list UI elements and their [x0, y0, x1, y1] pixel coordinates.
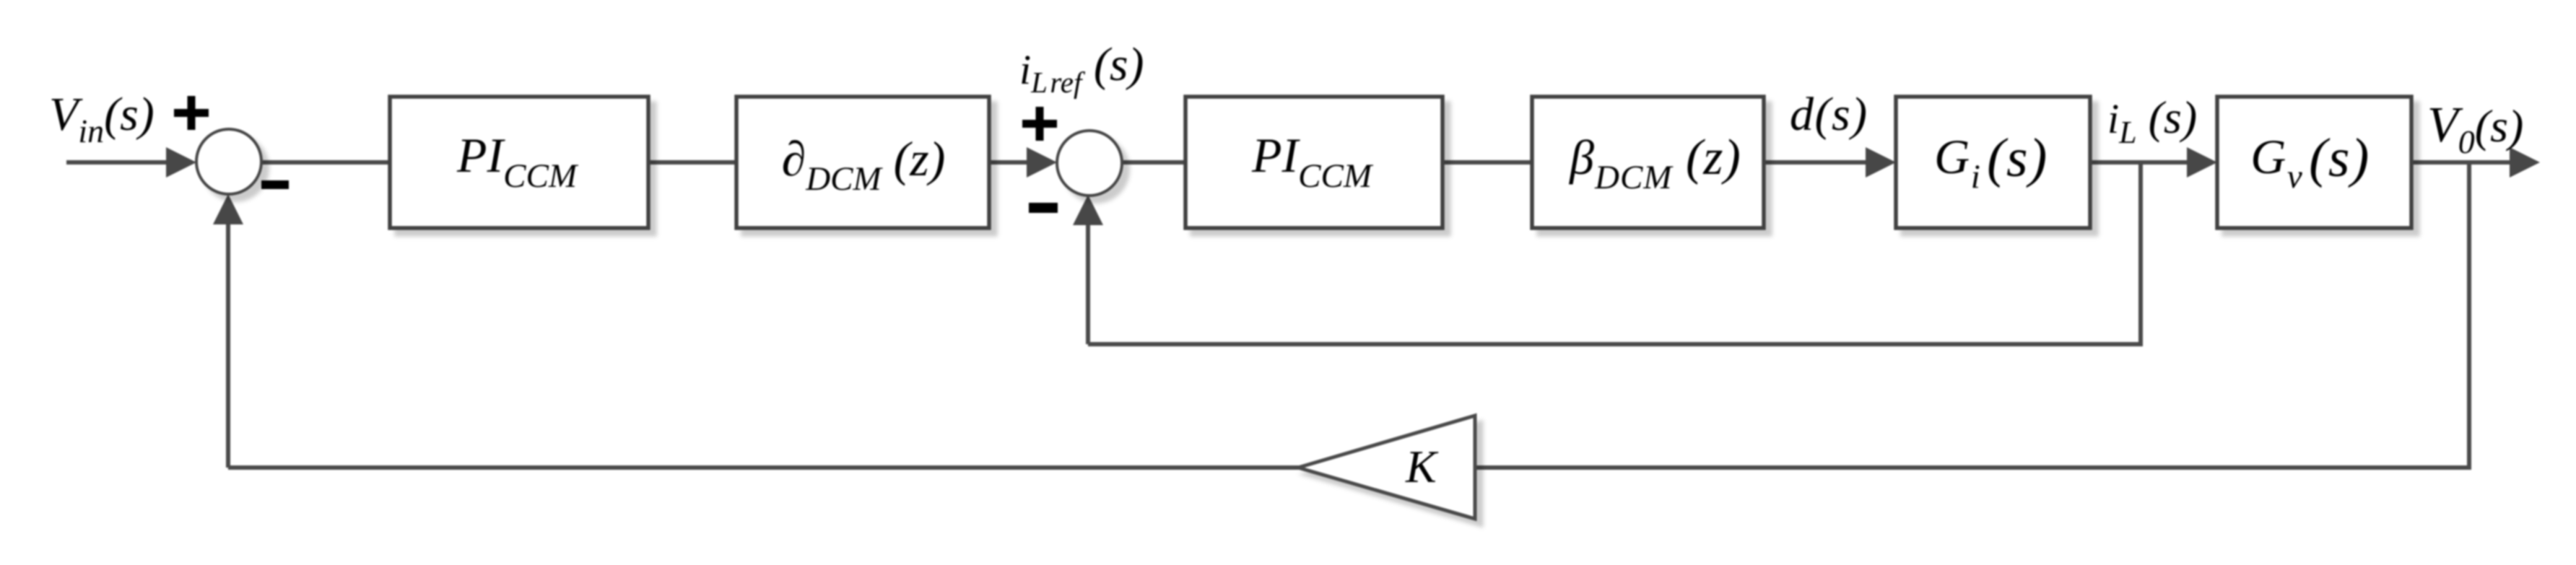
- svg-text:V0(s): V0(s): [2427, 97, 2523, 160]
- svg-text:K: K: [1405, 441, 1439, 492]
- svg-text:d(s): d(s): [1790, 88, 1868, 141]
